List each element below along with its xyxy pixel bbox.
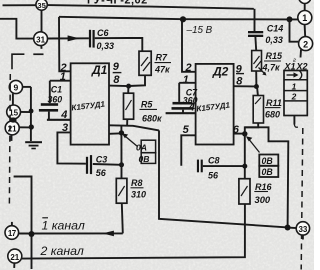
connector X1 X2 label <box>284 58 308 71</box>
callout boxes D1 <box>141 140 155 153</box>
pin 4 D2 <box>188 102 195 114</box>
wire output down to R8 <box>120 126 122 179</box>
wire -15V rail <box>59 17 298 20</box>
capacitor C14 <box>254 9 256 31</box>
wire stub <box>304 4 306 11</box>
op-amp U1 box <box>71 63 109 144</box>
svg-text:R11: R11 <box>266 98 282 108</box>
svg-text:С6: С6 <box>97 28 109 38</box>
node 31 circle <box>34 32 48 46</box>
dash mark <box>33 53 43 55</box>
svg-text:С1: С1 <box>51 85 62 95</box>
dashed boundary left corner <box>12 54 24 69</box>
pin 2 D2 <box>185 62 192 74</box>
capacitor C1 <box>49 81 51 104</box>
svg-text:Д2: Д2 <box>212 64 229 78</box>
svg-text:2: 2 <box>291 92 297 102</box>
svg-text:9: 9 <box>14 83 19 93</box>
pin 8 D2 <box>236 75 243 87</box>
svg-text:R7: R7 <box>156 53 168 63</box>
wire R7 bottom to junction <box>129 75 145 86</box>
svg-text:4,7к: 4,7к <box>262 63 281 73</box>
ground <box>25 141 42 143</box>
svg-text:R15: R15 <box>266 51 284 61</box>
svg-text:0В: 0В <box>262 156 274 166</box>
label 2 kanal <box>40 244 84 258</box>
wire output run to node 33 <box>245 127 288 227</box>
wire stub between 1 and 2 <box>304 25 307 37</box>
svg-text:300: 300 <box>255 194 271 205</box>
wire junction to R5 <box>127 86 129 93</box>
pin 1 D2 <box>183 74 189 86</box>
svg-text:33: 33 <box>298 225 307 234</box>
svg-text:680: 680 <box>265 110 280 120</box>
svg-text:4: 4 <box>188 102 195 114</box>
svg-text:0В: 0В <box>262 167 274 177</box>
node junction pin8 D2 <box>254 84 259 89</box>
pin 2 D1 <box>60 62 67 74</box>
node overlap blob <box>10 117 17 122</box>
svg-text:360: 360 <box>48 95 63 105</box>
wire D1 long vertical to bottom run <box>159 130 288 227</box>
svg-text:9: 9 <box>113 61 120 73</box>
pin 9 D1 <box>113 61 120 73</box>
pin 6 D2 <box>233 124 240 136</box>
node 1 circle <box>298 11 312 25</box>
wire R8 bottom to 1 kanal <box>122 203 123 233</box>
svg-text:1: 1 <box>292 81 297 91</box>
wire D1 output line <box>109 125 159 130</box>
wire hook below table <box>293 116 295 125</box>
dashed boundary right <box>301 128 303 270</box>
node N circle <box>5 226 19 240</box>
resistor R16 <box>239 179 250 204</box>
annotation arrow D2 <box>250 140 260 153</box>
title fragment (cut off at top) <box>87 0 148 6</box>
svg-text:С3: С3 <box>96 154 108 164</box>
callout boxes D2 <box>259 155 278 166</box>
node 2 circle <box>299 37 313 51</box>
svg-text:17: 17 <box>8 229 17 238</box>
svg-text:1: 1 <box>183 74 189 86</box>
capacitor C3 <box>86 157 88 174</box>
svg-text:56: 56 <box>208 171 219 181</box>
wire C6 to R7 <box>95 38 143 51</box>
resistor R7 <box>139 51 151 75</box>
wire pin 6 stub D1 <box>109 132 119 134</box>
svg-text:680к: 680к <box>142 113 162 123</box>
contact symbol in row1 <box>287 74 298 76</box>
wire chain stubs <box>12 94 14 106</box>
annotation arrow at R15 <box>259 68 266 75</box>
node 35 circle <box>36 0 47 10</box>
svg-text:31: 31 <box>36 35 45 44</box>
wire ground column <box>30 87 32 141</box>
pin 3 D1 <box>62 122 68 134</box>
label -15V <box>186 25 213 36</box>
svg-text:21: 21 <box>10 253 19 262</box>
node 15 circle <box>7 105 21 119</box>
node junction at 33 <box>285 225 291 231</box>
wire junction to R11 <box>256 87 259 96</box>
wire vertical x31 <box>14 177 32 270</box>
svg-text:R8: R8 <box>131 178 143 188</box>
svg-text:0В: 0В <box>139 154 150 164</box>
wire R11 bottom elbow to output node <box>245 123 258 127</box>
label 1 kanal <box>42 219 85 233</box>
wire to node 2 <box>290 19 299 41</box>
svg-text:56: 56 <box>96 168 107 178</box>
svg-text:R5: R5 <box>141 99 153 109</box>
svg-text:1: 1 <box>302 13 307 23</box>
node 33 circle <box>296 222 309 235</box>
node rail junction <box>180 16 186 22</box>
resistor R11 <box>253 96 263 124</box>
wire left input top <box>0 19 34 39</box>
svg-text:С14: С14 <box>267 24 284 34</box>
capacitor C8 <box>203 165 245 167</box>
wire kanal 2 <box>22 204 245 259</box>
wire R15 to junction <box>255 71 257 87</box>
svg-text:г: г <box>293 58 296 64</box>
wire R5 bottom <box>126 119 128 125</box>
svg-text:310: 310 <box>131 190 146 200</box>
wire top line A <box>3 4 36 6</box>
svg-text:0,33: 0,33 <box>265 35 283 45</box>
svg-text:8: 8 <box>113 74 120 86</box>
svg-text:Д1: Д1 <box>91 63 108 77</box>
wire output down to R16 <box>244 134 246 179</box>
svg-text:1 канал: 1 канал <box>42 219 85 233</box>
svg-text:0А: 0А <box>136 143 147 153</box>
pin 1 D1 <box>60 71 66 83</box>
op-amp U2 box <box>196 64 234 145</box>
pin 4 D1 <box>60 109 67 121</box>
wire stub 35 to 31 <box>41 10 43 31</box>
wire kanal 1 <box>19 232 123 234</box>
svg-text:2 канал: 2 канал <box>40 244 84 258</box>
node C3/R8 junction <box>119 162 124 167</box>
wire stub below 31 <box>40 46 42 49</box>
capacitor C6 <box>89 30 91 48</box>
node 21 circle <box>5 121 19 135</box>
svg-text:R16: R16 <box>255 182 273 192</box>
pin 9 D2 <box>236 63 243 75</box>
svg-text:47к: 47к <box>154 65 170 75</box>
capacitor C7 <box>178 83 180 102</box>
cut circle at top right <box>299 0 311 4</box>
wire 9 to column <box>23 86 31 88</box>
node dots <box>29 109 34 114</box>
node output blob D1 <box>119 130 124 135</box>
connector table X1/X2 <box>284 71 307 116</box>
wire stub below 2 <box>300 50 303 58</box>
resistor R5 <box>124 93 134 119</box>
node junction R7/R5/pin8 <box>126 84 131 89</box>
svg-text:2: 2 <box>303 39 308 49</box>
svg-text:8: 8 <box>236 75 243 87</box>
resistor R15 <box>252 51 262 72</box>
svg-text:С8: С8 <box>208 155 220 165</box>
pin 5 D2 <box>183 124 190 136</box>
node output junction D2 <box>242 131 247 136</box>
svg-text:35: 35 <box>37 1 46 10</box>
wire 31 to C6 with arrow <box>48 37 89 39</box>
svg-text:21: 21 <box>8 125 17 134</box>
left column node 9 circle <box>9 80 22 93</box>
node 21 bottom circle <box>8 249 22 263</box>
wire pin 8 D2 <box>234 85 257 87</box>
pin 8 D1 <box>113 74 120 86</box>
node C8 junction <box>242 164 247 169</box>
resistor R8 <box>116 178 127 203</box>
dashed boundary left <box>8 74 11 204</box>
annotation arrow D1 <box>126 137 138 147</box>
wire pin 8 D1 <box>109 85 129 88</box>
svg-text:–15 В: –15 В <box>186 25 213 36</box>
svg-text:0,33: 0,33 <box>97 41 115 51</box>
